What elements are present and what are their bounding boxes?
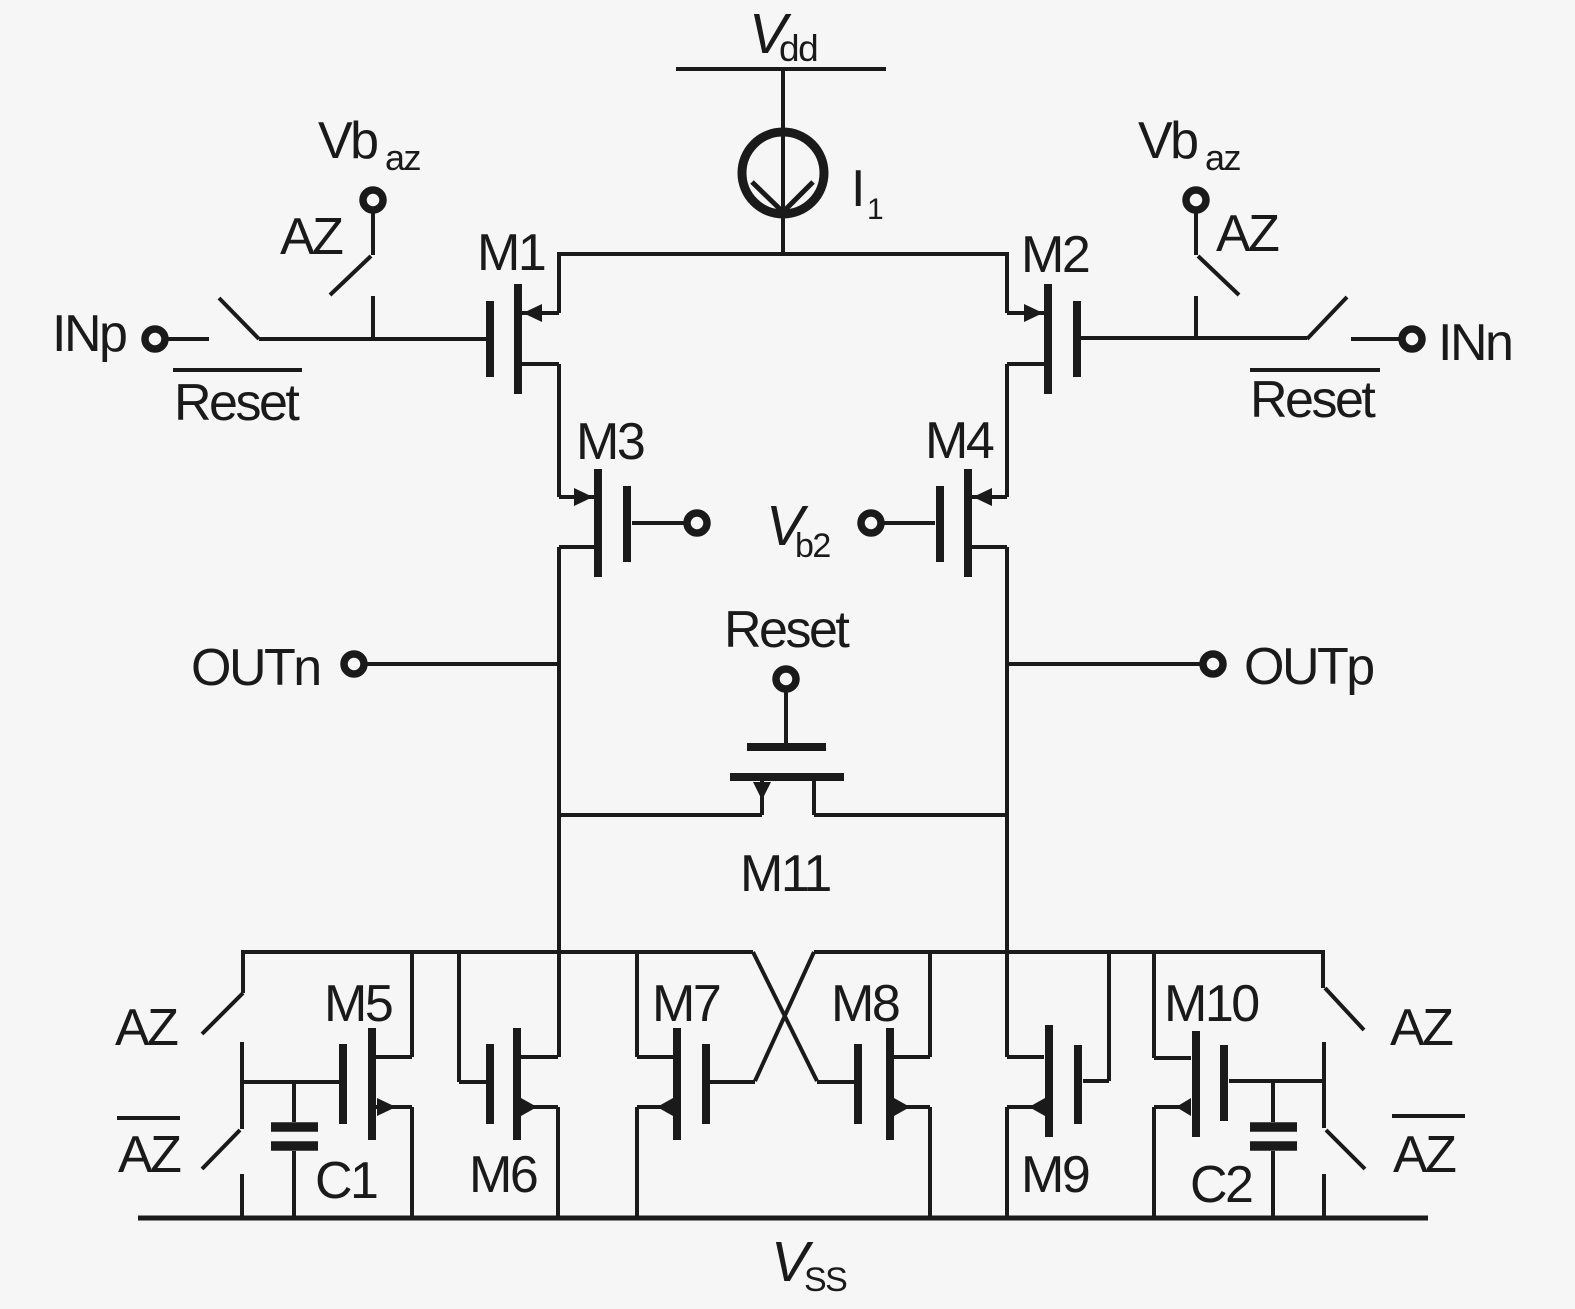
svg-text:AZ: AZ — [115, 999, 178, 1057]
Vb_az terminal (left) — [363, 190, 383, 210]
bottom rail right — [814, 950, 1323, 954]
OUTp terminal — [1203, 654, 1223, 674]
svg-text:M9: M9 — [1021, 1146, 1089, 1204]
svg-text:M8: M8 — [831, 975, 899, 1033]
Vss rail — [138, 1216, 1428, 1221]
Reset-bar switch (right) blade — [1307, 297, 1347, 339]
INp terminal — [145, 329, 165, 349]
transistor M10 — [1154, 952, 1324, 1218]
wire I1 to tail node — [781, 214, 785, 256]
transistor M5 — [324, 952, 412, 1218]
svg-text:AZ: AZ — [280, 208, 343, 266]
wire Vb_az stub (left) — [371, 212, 375, 255]
wire AZ stub to gate wire (right) — [1194, 296, 1198, 339]
AZ switch blade (top right) — [1198, 256, 1239, 295]
wire AZ node stub (right) — [1322, 1042, 1326, 1128]
cross-couple diagonal to M7 gate — [755, 952, 814, 1081]
svg-text:az: az — [1205, 137, 1241, 178]
INn terminal — [1402, 329, 1422, 349]
wire AZbar to Vss (right) — [1322, 1174, 1326, 1218]
wire AZbar to Vss (left) — [240, 1174, 244, 1218]
Reset terminal (M11) — [776, 669, 796, 689]
svg-text:OUTp: OUTp — [1244, 638, 1373, 696]
Vdd rail — [676, 67, 886, 71]
wire AZ node stub (left) — [240, 1042, 244, 1129]
svg-text:C2: C2 — [1190, 1156, 1252, 1214]
AZbar switch (bottom left) blade — [202, 1130, 240, 1169]
wire M2 source drop — [1005, 252, 1009, 313]
svg-text:b2: b2 — [795, 527, 830, 565]
wire M3 drain down to bottom rail — [557, 547, 561, 1057]
wire switch to INn — [1351, 337, 1399, 341]
svg-text:AZ: AZ — [1390, 999, 1453, 1057]
svg-text:M10: M10 — [1164, 975, 1258, 1033]
current source I1 — [742, 132, 824, 214]
svg-text:M7: M7 — [652, 975, 720, 1033]
Reset-bar label (left) — [173, 370, 302, 432]
wire OUTn — [367, 662, 559, 666]
svg-text:INn: INn — [1438, 314, 1511, 372]
AZ switch blade (top left) — [330, 256, 371, 295]
transistor M8 — [817, 952, 930, 1218]
transistor M7 — [637, 952, 755, 1218]
capacitor C2 — [1190, 1081, 1297, 1218]
svg-text:Vb: Vb — [1138, 112, 1197, 170]
AZbar label (left) — [117, 1118, 181, 1184]
svg-text:az: az — [385, 137, 421, 178]
svg-text:AZ: AZ — [118, 1126, 181, 1184]
transistor M6 — [459, 952, 558, 1218]
capacitor C1 — [271, 1082, 377, 1218]
bottom rail left — [243, 950, 753, 954]
svg-text:I: I — [851, 160, 863, 218]
wire M4 drain down to bottom rail — [1005, 547, 1009, 1057]
transistor M3 — [559, 413, 684, 577]
svg-text:AZ: AZ — [1216, 205, 1279, 263]
transistor M2 — [1007, 226, 1089, 394]
wire M2 gate — [1081, 336, 1307, 340]
transistor M4 — [884, 412, 1007, 577]
wire AZ stub to gate wire (left) — [371, 296, 375, 339]
M3 gate terminal — [687, 513, 707, 533]
transistor M1 — [477, 224, 559, 394]
wire left gate node — [242, 1080, 339, 1084]
svg-text:M4: M4 — [925, 412, 994, 470]
wire Vb_az stub (right) — [1194, 212, 1198, 255]
wire M11 source to OUTn line — [558, 813, 762, 817]
AZbar switch (bottom right) blade — [1326, 1130, 1365, 1169]
svg-text:M5: M5 — [324, 975, 392, 1033]
svg-text:Reset: Reset — [174, 374, 300, 432]
svg-text:dd: dd — [779, 28, 817, 69]
wire INp to switch — [168, 337, 209, 341]
wire M2 drain to M4 — [1005, 364, 1009, 497]
transistor M11 — [730, 691, 844, 903]
cross-couple diagonal to M8 gate — [753, 952, 817, 1081]
wire OUTp — [1007, 662, 1200, 666]
M4 gate terminal — [861, 513, 881, 533]
wire Vdd to I1 — [781, 69, 785, 132]
wire M1 drain to M3 — [557, 364, 561, 497]
svg-text:M11: M11 — [740, 845, 830, 903]
AZ switch (bottom left) — [202, 950, 243, 1034]
OUTn terminal — [344, 654, 364, 674]
svg-text:Reset: Reset — [1250, 371, 1376, 429]
svg-text:M3: M3 — [576, 413, 644, 471]
wire M11 drain to OUTp line — [814, 813, 1008, 817]
wire M1 source drop — [557, 252, 561, 313]
svg-text:1: 1 — [867, 193, 883, 226]
Reset-bar label (right) — [1250, 370, 1380, 429]
AZ switch (bottom right) — [1323, 950, 1364, 1030]
svg-text:M1: M1 — [477, 224, 545, 282]
svg-text:Vb: Vb — [318, 112, 377, 170]
svg-text:M2: M2 — [1021, 226, 1089, 284]
Reset-bar switch (left) blade — [219, 298, 259, 339]
wire switch to M1 gate — [259, 337, 486, 341]
svg-text:SS: SS — [804, 1261, 847, 1299]
svg-text:C1: C1 — [315, 1152, 377, 1210]
wire tail rail M1-M2 sources — [559, 252, 1007, 256]
svg-text:M6: M6 — [469, 1146, 537, 1204]
transistor M9 — [1007, 952, 1109, 1218]
svg-text:INp: INp — [52, 305, 126, 363]
svg-text:Reset: Reset — [724, 601, 850, 659]
svg-text:OUTn: OUTn — [191, 639, 320, 697]
AZbar label (right) — [1392, 1116, 1465, 1184]
svg-text:AZ: AZ — [1393, 1126, 1456, 1184]
Vb_az terminal (right) — [1186, 190, 1206, 210]
